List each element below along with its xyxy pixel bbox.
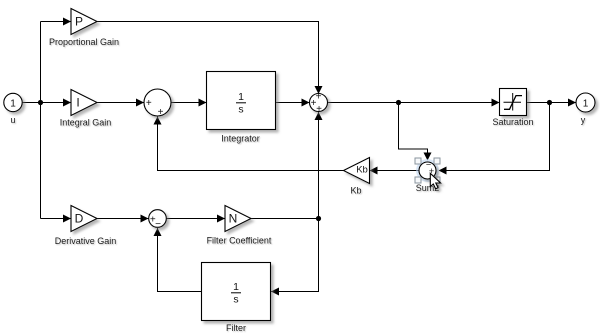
svg-text:s: s	[233, 294, 238, 306]
svg-text:−: −	[155, 219, 161, 230]
svg-text:Kb: Kb	[350, 186, 361, 196]
svg-text:s: s	[238, 104, 243, 116]
svg-text:I: I	[76, 96, 79, 110]
svg-text:+: +	[146, 98, 152, 109]
svg-text:Filter: Filter	[226, 323, 246, 333]
svg-text:N: N	[229, 212, 238, 226]
svg-text:u: u	[10, 115, 15, 125]
svg-text:1: 1	[233, 281, 239, 293]
svg-text:Integrator: Integrator	[221, 134, 260, 144]
svg-text:Derivative Gain: Derivative Gain	[55, 236, 117, 246]
svg-text:D: D	[75, 212, 84, 226]
svg-text:Saturation: Saturation	[492, 117, 533, 127]
svg-text:1: 1	[238, 91, 244, 103]
svg-text:Proportional Gain: Proportional Gain	[49, 37, 119, 47]
svg-text:Filter Coefficient: Filter Coefficient	[207, 236, 272, 246]
svg-text:+: +	[316, 92, 322, 103]
svg-text:1: 1	[10, 98, 16, 109]
svg-text:+: +	[316, 104, 322, 115]
svg-text:y: y	[581, 115, 586, 125]
svg-text:Kb: Kb	[356, 165, 368, 176]
svg-text:P: P	[75, 15, 83, 29]
svg-text:+: +	[158, 107, 164, 118]
svg-text:Integral Gain: Integral Gain	[60, 118, 112, 128]
svg-text:1: 1	[583, 98, 589, 109]
